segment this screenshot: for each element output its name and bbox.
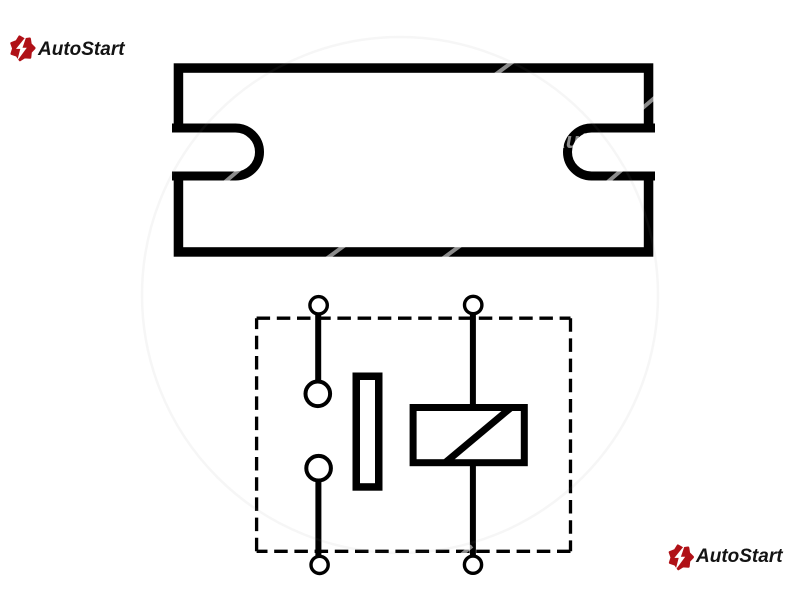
svg-text:Auto: Auto [549, 128, 600, 153]
